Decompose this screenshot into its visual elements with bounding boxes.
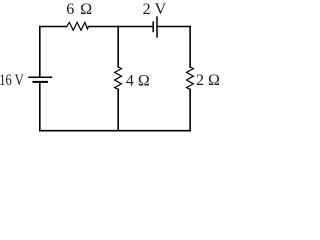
wire: middle branch lower stub (4Ω resistor down to bottom wire)	[117, 89, 119, 130]
wire: left side lower segment (16V battery down to bottom-left corner)	[39, 82, 41, 131]
svg-text:2 Ω: 2 Ω	[196, 72, 220, 89]
battery 16V: short plate (bottom, negative)	[33, 81, 47, 83]
battery 2V: long plate (right, positive)	[156, 17, 158, 37]
resistor 4Ω (vertical zigzag, middle branch)	[115, 67, 122, 90]
svg-text:6 Ω: 6 Ω	[66, 1, 92, 18]
resistor 2Ω (vertical zigzag, right branch)	[187, 67, 194, 90]
wire: bottom-right segment (middle node to bottom-right corner)	[118, 130, 190, 132]
wire: left side upper segment (top-left corner down to 16V battery)	[39, 27, 41, 78]
wire: top segment (middle node to 2V battery)	[118, 26, 153, 28]
svg-text:2 V: 2 V	[143, 1, 167, 18]
svg-text:4 Ω: 4 Ω	[126, 72, 150, 89]
wire: bottom-left segment (bottom-left corner to middle node)	[40, 130, 118, 132]
battery 2V: short plate (left, negative)	[152, 22, 154, 32]
wire: right side lower stub (2Ω resistor down to bottom-right corner)	[189, 89, 191, 130]
wire: middle branch upper stub (top wire down to 4Ω resistor)	[117, 27, 119, 67]
resistor 6Ω (zigzag in top wire)	[67, 22, 89, 30]
wire: right side upper stub (top-right corner down to 2Ω resistor)	[189, 27, 191, 67]
wire: top-middle segment (6Ω resistor to middle node)	[89, 26, 119, 28]
wire: top-right segment (2V battery to right corner)	[157, 26, 190, 28]
svg-text:16 V: 16 V	[0, 72, 24, 89]
wire: top-left segment (left corner to 6Ω resistor)	[40, 26, 67, 28]
battery 16V: long plate (top, positive)	[29, 76, 52, 78]
